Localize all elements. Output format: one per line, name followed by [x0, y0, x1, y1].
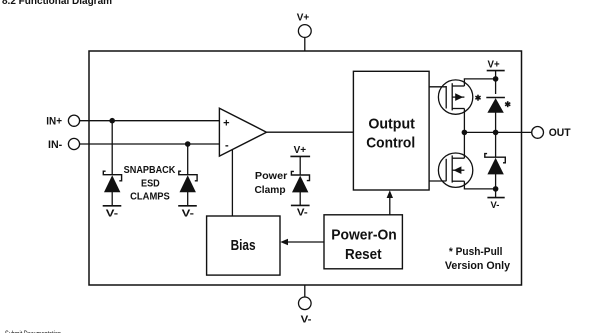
wire IN+ to comparator — [80, 120, 220, 122]
svg-text:V-: V- — [297, 207, 308, 219]
snapback diode D5 (OUT to V-) — [485, 154, 506, 198]
V- rail bar (lower right) — [487, 198, 504, 211]
asterisk next to D4 — [505, 101, 510, 107]
arrow Power-On Reset to Output Control — [387, 190, 393, 215]
IC boundary box — [89, 51, 522, 285]
svg-text:V+: V+ — [294, 144, 307, 156]
svg-text:Control: Control — [366, 135, 415, 152]
svg-text:* Push-Pull: * Push-Pull — [449, 246, 503, 258]
svg-text:CLAMPS: CLAMPS — [130, 190, 170, 202]
svg-text:Submit Documentation: Submit Documentation — [5, 330, 61, 333]
svg-text:-: - — [225, 140, 229, 152]
svg-text:V+: V+ — [297, 12, 310, 24]
svg-text:Version Only: Version Only — [445, 260, 511, 272]
note * Push-Pull Version Only — [445, 246, 511, 272]
wire Q1 drain to V+ rail — [464, 79, 495, 86]
terminal IN+ — [46, 115, 79, 127]
snapback ESD clamp diode D2 — [179, 171, 197, 206]
label SNAPBACK ESD CLAMPS — [124, 164, 176, 203]
svg-text:Reset: Reset — [345, 246, 382, 263]
terminal OUT — [532, 126, 571, 139]
V- rail bar under D2 — [178, 206, 197, 220]
svg-text:8.2 Functional Diagram: 8.2 Functional Diagram — [2, 0, 112, 7]
diode D4 (upper clamp, V+ to OUT) — [486, 98, 505, 133]
arrow Power-On Reset to Bias — [280, 239, 324, 245]
svg-text:OUT: OUT — [549, 127, 571, 139]
svg-text:+: + — [223, 117, 229, 129]
terminal V+ (top) — [297, 12, 311, 52]
svg-text:Power-On: Power-On — [331, 227, 397, 244]
svg-text:Output: Output — [368, 116, 415, 133]
wire OUT node to OUT terminal — [464, 131, 531, 133]
junction dot Q2 source / V- — [493, 186, 499, 192]
wire IN- to comparator — [80, 143, 220, 145]
wire OUT node down to snapback diode D5 — [495, 132, 497, 157]
wire Q2 drain up to OUT node — [463, 132, 465, 158]
junction dot on IN+ wire — [109, 118, 115, 124]
terminal IN- — [48, 138, 80, 151]
MOSFET Q1 (upper, push-pull high side) — [438, 80, 472, 114]
MOSFET Q2 (lower) — [438, 153, 472, 187]
svg-text:V-: V- — [491, 200, 500, 211]
wire IN- junction down to ESD clamp D2 — [187, 144, 189, 175]
svg-text:Power: Power — [255, 170, 287, 182]
svg-text:IN+: IN+ — [46, 115, 62, 127]
wire comparator output to Output Control — [267, 131, 354, 133]
svg-text:ESD: ESD — [141, 178, 160, 190]
wire IN+ junction down to ESD clamp D1 — [111, 121, 113, 175]
svg-text:IN-: IN- — [48, 139, 63, 151]
block Power-On Reset — [324, 215, 402, 269]
power clamp V- rail bar — [291, 205, 310, 218]
svg-text:Clamp: Clamp — [254, 184, 285, 196]
wire Q2 source to V- node — [464, 181, 495, 189]
V- rail bar under D1 — [103, 206, 122, 220]
wire gate of upper MOSFET from Output Control — [429, 86, 446, 88]
junction dot drain/V+ — [493, 76, 499, 82]
snapback ESD clamp diode D1 — [103, 171, 121, 206]
power clamp V+ rail bar — [290, 144, 310, 175]
junction dot D4/OUT — [493, 130, 499, 136]
svg-text:V-: V- — [106, 208, 119, 220]
block Output Control — [353, 71, 429, 190]
wire gate of lower MOSFET from Output Control — [429, 180, 446, 182]
wire comparator to Bias — [231, 150, 233, 216]
junction dot Q1/Q2 at OUT node — [462, 130, 468, 136]
svg-text:V+: V+ — [488, 60, 500, 71]
comparator U1 (input triangle) — [219, 108, 266, 156]
V+ rail bar (top right) — [487, 60, 505, 94]
svg-text:Bias: Bias — [231, 238, 256, 254]
svg-text:V-: V- — [301, 314, 312, 326]
svg-text:V-: V- — [182, 208, 195, 220]
label Power Clamp — [254, 170, 287, 196]
wire Q1 source down to OUT node — [463, 109, 465, 133]
junction dot on IN- wire — [185, 141, 191, 147]
power clamp diode D3 — [291, 171, 309, 205]
svg-text:SNAPBACK: SNAPBACK — [124, 164, 176, 176]
terminal V- (bottom) — [299, 285, 312, 326]
asterisk next to Q1 — [475, 95, 480, 101]
block Bias — [207, 216, 280, 275]
